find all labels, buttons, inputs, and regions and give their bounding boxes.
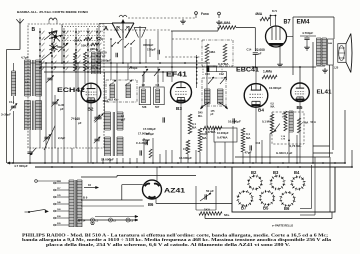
wire rail x313: [312, 42, 314, 163]
wire corner x330: [329, 157, 331, 212]
wire transformer bottom drops: [329, 65, 331, 157]
wire speaker top rail: [333, 17, 335, 39]
wire gang drop a: [110, 39, 112, 63]
svg-text:17.000pF: 17.000pF: [138, 131, 150, 135]
switch wafer column 6: [96, 28, 98, 148]
transformer taps: [56, 182, 70, 184]
svg-text:pF: pF: [60, 107, 64, 111]
IF transformer 1 box: [106, 80, 137, 102]
svg-text:3700pF: 3700pF: [143, 43, 154, 47]
trimmer osc lower: [94, 138, 99, 140]
switch contacts mid cluster: [111, 45, 113, 47]
speaker magnet: [338, 44, 346, 63]
wire B9 line: [81, 199, 143, 201]
trimmer osc upper: [94, 116, 99, 118]
svg-text:e• PARTE RELLO: e• PARTE RELLO: [272, 224, 293, 228]
IF1 trimmer arrow 1: [109, 80, 116, 86]
cathode resistor A: [284, 111, 287, 131]
ground output: [324, 68, 326, 70]
svg-text:1,4MA: 1,4MA: [221, 21, 231, 25]
svg-text:50KA: 50KA: [74, 39, 83, 43]
bus B+ y167: [35, 166, 352, 168]
trimmer IF ef41 b: [154, 69, 160, 76]
resistor ef41 cathode: [188, 114, 192, 134]
coil hump above switch box: [49, 18, 57, 20]
heater second line: [95, 216, 138, 218]
IF coil can 2: [154, 87, 165, 105]
oscillator coil upper primary: [104, 112, 106, 130]
switch lever arrows: [44, 31, 55, 40]
svg-text:56A: 56A: [304, 121, 309, 125]
tube ECH42 B2: [81, 83, 101, 103]
wire coil bus verticals: [45, 63, 47, 148]
wire nested vertical a: [311, 165, 313, 209]
power transformer secondary winding: [76, 180, 78, 227]
svg-text:170pF: 170pF: [147, 48, 156, 52]
svg-text:3150pF: 3150pF: [101, 59, 111, 63]
svg-text:MA: MA: [192, 125, 196, 129]
pilot lamp L3: [126, 218, 130, 222]
coil T2 secondary: [35, 101, 37, 131]
svg-text:NFa.: NFa.: [224, 213, 230, 217]
wire AZ41 top: [156, 167, 158, 181]
antenna transformer T1 secondary: [35, 60, 37, 96]
wire volume dotted: [196, 55, 198, 88]
socket B6 view: [281, 192, 295, 206]
wire gang drop b: [145, 39, 147, 63]
junction dots distribution: [45, 62, 47, 64]
tuning capacitor section 1: [112, 22, 134, 24]
svg-text:EBC41: EBC41: [236, 67, 259, 74]
svg-text:C1.1: C1.1: [9, 100, 15, 104]
gang dashed coupling line: [128, 17, 196, 19]
wire screen line y67: [40, 66, 316, 68]
tone control dashed box: [272, 112, 304, 144]
capacitor 470pF: [145, 140, 147, 145]
wire osc top link b: [116, 63, 118, 112]
EM4 top pins: [270, 15, 272, 17]
svg-text:placca della finale, 254 V all: placca della finale, 254 V allo schermo,…: [46, 242, 290, 247]
oscillator coil upper secondary: [116, 112, 118, 130]
winding band c: [91, 52, 93, 74]
capacitor 4700pF: [304, 37, 309, 39]
wire out top: [300, 35, 316, 37]
capacitor 47000pF: [27, 151, 32, 153]
socket box: [232, 167, 335, 212]
wire choke chain: [13, 63, 15, 71]
IF1 trimmer arrow 2: [125, 80, 132, 86]
svg-text:17.000pF: 17.000pF: [143, 127, 156, 131]
trimmer C3: [52, 101, 57, 103]
cathode winding: [288, 111, 290, 132]
rotary switch star 2: [49, 45, 57, 50]
gang interior detail: [118, 26, 119, 27]
svg-text:1KA: 1KA: [204, 208, 211, 212]
switch wafer column 3: [63, 28, 65, 148]
arrow B10: [84, 187, 99, 189]
core T2: [32, 101, 34, 131]
wire AVC line y63: [46, 62, 210, 64]
pilot lamp L1: [91, 218, 95, 222]
capacitor 22000pF: [253, 52, 258, 54]
core T1: [32, 60, 34, 96]
svg-text:50 A: 50 A: [311, 120, 317, 124]
switch shaft diagonal: [44, 126, 55, 150]
svg-text:1,25: 1,25: [334, 67, 339, 70]
wire tone to rail y153: [313, 152, 333, 154]
svg-text:3÷30pF: 3÷30pF: [1, 113, 11, 117]
resistor 0,47MA horizontal: [203, 126, 222, 130]
wire nested vertical b: [314, 157, 316, 215]
svg-text:B6: B6: [284, 206, 290, 211]
svg-text:10KA: 10KA: [81, 44, 90, 48]
terminal heater left: [35, 180, 38, 183]
svg-text:507: 507: [155, 105, 160, 109]
wire dash drop a: [157, 31, 159, 60]
winding band d: [96, 52, 98, 74]
wire top middle: [171, 30, 218, 32]
junction tone: [288, 140, 290, 142]
resistor 1,4Ma horizontal ebc: [262, 75, 277, 79]
svg-text:528: 528: [142, 105, 147, 109]
svg-text:B.71: B.71: [272, 10, 278, 13]
variable capacitor 50pF: [204, 194, 206, 199]
wire AZ41 right: [156, 202, 232, 204]
svg-text:B5: B5: [297, 105, 303, 110]
IF1 primary coil: [109, 84, 111, 98]
output transformer primary: [316, 38, 318, 65]
dashed line bottom: [165, 56, 200, 58]
resistor band a: [74, 52, 77, 71]
rotary switch star 1: [49, 35, 62, 38]
cathode resistor B: [297, 118, 300, 133]
wire corner x352: [351, 150, 353, 167]
svg-text:B4: B4: [258, 108, 264, 113]
svg-text:C15: C15: [183, 148, 188, 151]
wire EM4 section vertical: [292, 17, 294, 75]
IF coil can 1: [139, 87, 150, 105]
svg-text:10.000pF: 10.000pF: [269, 86, 282, 90]
svg-text:MA.: MA.: [271, 105, 276, 108]
resistor 4MA diagonal: [260, 17, 270, 21]
IF2 arrow arc left: [201, 103, 210, 110]
socket B7 view: [238, 191, 252, 205]
svg-text:MA.: MA.: [198, 115, 203, 118]
IF2 trimmer 1: [208, 77, 214, 84]
wire to EM4 grid: [236, 27, 255, 29]
wire gang left: [99, 23, 113, 25]
svg-text:G.039 0,1 µF: G.039 0,1 µF: [276, 151, 293, 155]
wire under gang: [98, 40, 100, 63]
arrow 47000: [30, 148, 36, 155]
coil T2 primary: [24, 101, 26, 131]
svg-text:EF41: EF41: [166, 72, 187, 79]
svg-text:17pF: 17pF: [282, 117, 288, 119]
svg-text:B7: B7: [241, 206, 247, 211]
IF1 secondary coil: [125, 84, 127, 98]
socket B3 view: [271, 176, 284, 189]
svg-text:BANDA ALL. 25-51m CORTE MEDIE: BANDA ALL. 25-51m CORTE MEDIE FONO: [17, 10, 89, 14]
wire outer loop bottom: [205, 218, 332, 220]
wire nested bottom a: [300, 208, 312, 210]
trimmer padder 7÷140: [96, 116, 101, 118]
wire EM4 cathode drop: [279, 47, 281, 62]
socket B2 view: [248, 176, 261, 189]
wire cap 22000 down: [254, 54, 256, 67]
wire antenna to left rail: [7, 49, 21, 51]
svg-text:C12: C12: [219, 72, 224, 76]
wire ECH42 drops: [77, 63, 79, 92]
svg-text:EL41: EL41: [317, 90, 333, 96]
svg-text:50 pF: 50 pF: [206, 189, 214, 193]
wire to AZ41 plate: [122, 184, 143, 186]
svg-text:1,4Ma: 1,4Ma: [263, 70, 272, 74]
wire lower loop: [81, 205, 144, 207]
svg-text:10.000pF: 10.000pF: [217, 131, 229, 135]
resistor 0,1MA vertical ebc: [270, 114, 274, 134]
svg-text:B6: B6: [148, 202, 154, 207]
dash-dot box pot: [202, 40, 233, 66]
antenna: [19, 24, 21, 50]
svg-text:B5: B5: [263, 206, 269, 211]
heater bottom line: [78, 219, 138, 221]
wire mid vertical c: [130, 47, 132, 63]
resistor 0.47MA vertical: [223, 44, 227, 62]
resistor C15 vertical: [186, 140, 190, 154]
svg-text:B2: B2: [251, 170, 257, 175]
svg-text:4,7pF: 4,7pF: [21, 56, 29, 60]
resistor 1KA: [199, 212, 222, 216]
capacitor osc mid: [139, 150, 141, 155]
oscillator coil lower secondary: [116, 137, 118, 156]
dashed line pickup: [172, 38, 199, 40]
wire IF1 up: [110, 63, 112, 80]
svg-text:1MA: 1MA: [209, 50, 216, 54]
trimmer C2: [47, 77, 52, 79]
socket B4 view: [292, 177, 304, 189]
IF2 trimmer 2: [220, 77, 226, 84]
svg-text:Fono: Fono: [201, 12, 209, 16]
resistor 50KA: [84, 38, 92, 41]
terminal 2: [218, 12, 221, 15]
wire AZ41 bottom: [155, 199, 157, 204]
switch box small: [207, 66, 217, 72]
RF choke L1: [11, 71, 13, 96]
ground 4700pF: [306, 40, 308, 45]
terminal mid: [101, 38, 103, 40]
antenna transformer T1 primary: [24, 60, 26, 96]
svg-text:10.000pF: 10.000pF: [228, 120, 241, 124]
capacitor 170pF: [157, 50, 159, 54]
svg-text:22KA: 22KA: [90, 47, 99, 51]
wire transformer bottom: [316, 65, 325, 67]
oscillator coil lower primary: [104, 137, 106, 156]
boxed label 0,47MA: [214, 128, 237, 142]
oscillator core: [112, 112, 114, 156]
terminal Fono: [195, 12, 198, 15]
svg-text:4.7 000pF: 4.7 000pF: [14, 164, 28, 168]
wire EBC41 up: [255, 67, 257, 84]
resistor 0,05MA vertical: [198, 128, 202, 152]
resistor 1,4MA horizontal: [218, 26, 236, 30]
resistor 1MA vertical: [205, 44, 209, 62]
svg-text:2,2µF: 2,2µF: [58, 136, 65, 140]
svg-text:B: B: [32, 27, 36, 33]
tone arrow: [274, 124, 280, 132]
junction dots bus: [12, 162, 14, 164]
switch wafer column 4: [75, 28, 77, 148]
svg-text:270pF: 270pF: [129, 66, 138, 70]
bus y157 right: [235, 156, 330, 158]
svg-text:14: 14: [25, 80, 29, 84]
svg-text:B3: B3: [176, 106, 182, 111]
tube AZ41 B6: [143, 180, 162, 199]
output transformer secondary: [321, 38, 323, 65]
resistor osc small: [149, 149, 152, 158]
svg-text:EM4: EM4: [297, 18, 311, 25]
svg-text:4.700pF: 4.700pF: [302, 31, 313, 35]
wire small box right: [217, 71, 227, 73]
svg-text:470pF: 470pF: [142, 138, 150, 142]
switch wafer column 1: [39, 28, 41, 148]
bus chassis y163: [7, 162, 345, 164]
svg-text:10: 10: [88, 183, 92, 187]
svg-text:C14: C14: [247, 48, 252, 52]
switch wafer column 5: [87, 28, 89, 148]
svg-text:0,47MA: 0,47MA: [218, 62, 229, 66]
wire rail x345: [344, 110, 346, 163]
band switch unit B dashed box: [28, 24, 104, 148]
capacitor det: [232, 118, 234, 123]
svg-text:pF: pF: [258, 52, 262, 56]
tuning capacitor section 2: [134, 27, 146, 29]
IF transformer 2 box: [202, 78, 226, 106]
svg-text:B: B: [78, 219, 80, 222]
svg-text:B4: B4: [294, 170, 300, 175]
capacitor ef41 cathode: [162, 117, 164, 122]
coil hump above gang: [119, 15, 127, 17]
svg-text:4MA: 4MA: [255, 12, 263, 16]
svg-text:C10: C10: [205, 72, 210, 76]
ground EM4 cathode: [279, 62, 281, 64]
svg-text:47pF: 47pF: [245, 151, 252, 155]
tube EL41 B5: [291, 83, 310, 102]
wire coil top link: [24, 62, 46, 64]
svg-text:B2: B2: [88, 107, 94, 112]
wire osc top link: [104, 72, 106, 112]
svg-text:C/8: C/8: [156, 84, 160, 87]
IF2 arrow arc right: [219, 103, 228, 110]
svg-text:0,47MA: 0,47MA: [217, 136, 228, 140]
svg-text:pF: pF: [102, 54, 106, 58]
svg-text:A: A: [104, 26, 108, 32]
svg-text:pF: pF: [78, 121, 82, 125]
capacitor 3150pF: [115, 53, 117, 57]
wire EM4 right: [287, 36, 294, 38]
ground fono 2: [218, 20, 220, 22]
svg-text:-452 Kc-: -452 Kc-: [107, 98, 119, 102]
wire dash drop b: [149, 39, 151, 57]
box filter: [195, 186, 197, 210]
svg-text:B7: B7: [284, 18, 291, 25]
speaker cone: [346, 34, 351, 44]
dashed line to volume pot: [103, 29, 171, 31]
output transformer panel box: [328, 39, 334, 65]
terminal gang: [98, 37, 101, 40]
resistor 10KA: [91, 43, 99, 46]
wire AVC line y72: [44, 71, 176, 73]
wire B10 line: [81, 176, 117, 178]
power transformer primary winding: [68, 180, 70, 227]
IF2 primary: [204, 89, 206, 104]
svg-text:µµF: µµF: [121, 118, 126, 121]
trimmer IF ef41 a: [142, 69, 148, 76]
tube EM4 envelope B7: [266, 26, 287, 47]
wire EL41 plate up: [299, 67, 301, 83]
tube EBC41 B4: [244, 84, 268, 108]
wire left rail: [6, 50, 8, 164]
wire drops to bus: [29, 130, 31, 163]
capacitor 47pF: [249, 145, 251, 150]
contact dotted rows: [62, 26, 103, 28]
IF2 secondary: [217, 89, 219, 104]
trimmer mid left: [44, 136, 49, 138]
pot box dashed drops: [202, 66, 204, 75]
socket B5 view: [260, 191, 274, 205]
mains switch: [28, 211, 30, 213]
ground lamp1: [92, 222, 94, 223]
svg-text:B3: B3: [273, 170, 279, 175]
wire gang down: [122, 40, 124, 63]
power transformer core: [74, 180, 76, 227]
wire can tops: [142, 75, 144, 87]
pilot lamp L2: [109, 218, 113, 222]
svg-text:B 9: B 9: [83, 196, 88, 200]
wire tone to rail y146: [313, 145, 330, 147]
ground fono 1: [182, 19, 184, 21]
tube EF41 B3: [171, 82, 192, 103]
wire osc caps: [143, 138, 145, 158]
resistor 0,1MA vertical mid: [241, 128, 245, 152]
wire EF41 vertical drops: [143, 72, 145, 82]
switch wafer column 2: [51, 28, 53, 148]
wire nested bottom b: [300, 214, 315, 216]
trimmer C1: [11, 105, 16, 107]
svg-text:AZ41: AZ41: [164, 187, 186, 194]
svg-text:0,1 MA: 0,1 MA: [262, 120, 271, 124]
resistor band b: [84, 52, 87, 71]
